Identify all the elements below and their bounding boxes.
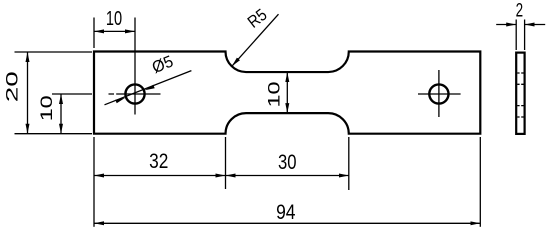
svg-text:32: 32 — [149, 150, 168, 173]
svg-text:10: 10 — [37, 95, 56, 121]
svg-text:20: 20 — [3, 71, 22, 102]
dimension 2 (side view): left line with inward arrow — [496, 24, 516, 26]
dimension 10 (top): dimension line with arrows — [94, 30, 135, 32]
dimension 10 (neck): dimension line with arrows — [286, 72, 288, 113]
dimension 20 (left): dimension line with arrows — [27, 52, 29, 134]
svg-text:10: 10 — [106, 8, 122, 30]
dimension 2 (side view): extension lines — [515, 20, 517, 51]
centerline left hole vertical (also extension of top 10 dim) — [134, 18, 136, 115]
dimension 10 (top): extension line — [93, 18, 95, 49]
svg-text:2: 2 — [516, 1, 524, 22]
svg-text:10: 10 — [265, 82, 284, 108]
dimension 10 (lower left): extension line — [52, 93, 92, 95]
side view hidden/center line marks — [517, 73, 523, 117]
extension line below left edge (x=94) — [93, 137, 95, 227]
leader Ø5: line through hole — [105, 71, 192, 105]
leader Ø5: arrow upper-right pointing at circle — [145, 85, 155, 90]
dimension 2 (side view): right line with inward arrow — [525, 24, 546, 26]
centerline right hole horizontal — [418, 93, 461, 95]
leader Ø5: arrow lower-left pointing at circle — [115, 98, 125, 103]
dimension 20 (left): extension lines — [15, 51, 93, 53]
extension line below right neck corner (x=348.8) — [348, 137, 350, 190]
svg-text:30: 30 — [278, 151, 297, 174]
leader R5: line with arrow to fillet — [232, 14, 279, 66]
svg-text:Ø5: Ø5 — [150, 53, 176, 78]
dimension 30: dimension line with arrows — [226, 175, 349, 177]
extension line below left neck corner (x=225.5) — [225, 137, 227, 189]
dimension 10 (lower left): dimension line with arrows — [60, 94, 62, 134]
dimension 94: dimension line with arrows — [94, 222, 480, 224]
svg-text:94: 94 — [276, 201, 296, 224]
dimension 32: dimension line with arrows — [94, 175, 226, 177]
side view outline (thickness 2) — [516, 53, 524, 134]
extension line below right edge (x=480.3) — [479, 137, 481, 227]
part outline (front view, dog-bone specimen) — [94, 52, 480, 134]
centerline left hole horizontal — [109, 93, 161, 95]
centerline right hole vertical — [438, 70, 440, 117]
hole right Ø5 — [429, 84, 448, 103]
hole left Ø5 — [125, 84, 144, 103]
